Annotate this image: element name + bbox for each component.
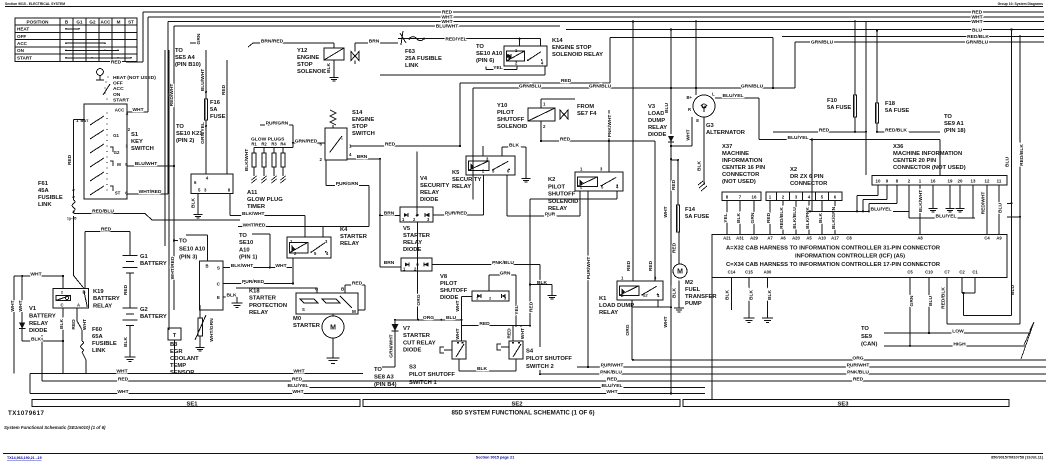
B3 thermistor	[198, 318, 203, 336]
svg-text:A5: A5	[806, 235, 812, 240]
svg-text:9: 9	[886, 178, 889, 183]
svg-text:A9: A9	[996, 235, 1002, 240]
svg-text:4: 4	[541, 61, 544, 66]
svg-text:5: 5	[314, 251, 317, 256]
wire bus GRN/BLU right	[795, 41, 1044, 43]
svg-text:ACC: ACC	[17, 41, 28, 46]
svg-text:10: 10	[876, 178, 881, 183]
svg-text:RED/BLK: RED/BLK	[885, 127, 907, 133]
svg-text:RED: RED	[292, 376, 303, 382]
table contacts	[65, 28, 67, 30]
svg-text:S14ENGINESTOPSWITCH: S14ENGINESTOPSWITCH	[352, 110, 375, 137]
V1 wires	[13, 276, 15, 373]
svg-text:WHT: WHT	[275, 263, 286, 269]
svg-text:ST: ST	[643, 293, 649, 298]
svg-text:F165AFUSE: F165AFUSE	[210, 100, 226, 120]
svg-text:BLK: BLK	[59, 319, 65, 330]
svg-text:BLK: BLK	[191, 198, 197, 209]
svg-text:System Functional Schematic (S: System Functional Schematic (SE1m010) (1…	[4, 425, 106, 430]
svg-text:BLK: BLK	[725, 290, 731, 301]
svg-text:R4: R4	[280, 142, 286, 147]
svg-text:ORG: ORG	[852, 356, 863, 362]
svg-text:BLK: BLK	[672, 288, 678, 299]
right verticals	[1011, 30, 1013, 316]
wire ORG BLU	[395, 319, 462, 321]
svg-text:SE3: SE3	[838, 401, 850, 407]
rotary symbol	[97, 69, 104, 76]
svg-text:M: M	[117, 19, 121, 24]
svg-text:Y10PILOTSHUTOFFSOLENOID: Y10PILOTSHUTOFFSOLENOID	[497, 103, 527, 130]
svg-text:RED: RED	[67, 154, 73, 165]
svg-text:PUR/WHT: PUR/WHT	[847, 363, 870, 369]
starter wires	[316, 288, 318, 293]
battery G1	[123, 255, 138, 257]
svg-text:RED: RED	[507, 328, 513, 339]
wire BRN/RED	[253, 42, 334, 44]
svg-text:BLU/WHT: BLU/WHT	[436, 24, 459, 30]
svg-text:ACC: ACC	[101, 19, 112, 24]
Y10 coil	[528, 108, 555, 121]
svg-text:WHT: WHT	[606, 389, 617, 395]
B3 sensor box	[168, 328, 181, 340]
svg-text:G2: G2	[89, 19, 96, 24]
svg-text:R: R	[688, 107, 691, 112]
svg-text:BLK: BLK	[326, 63, 332, 74]
svg-text:BLK: BLK	[749, 290, 755, 301]
wire vertical x712	[711, 278, 713, 400]
F63 symbol	[398, 38, 541, 40]
CAN HIGH wire	[884, 345, 1026, 347]
svg-text:R1: R1	[251, 142, 257, 147]
svg-text:BLU: BLU	[1010, 285, 1016, 296]
svg-text:E: E	[217, 295, 220, 300]
F60 symbol	[81, 341, 84, 352]
svg-text:RED: RED	[71, 319, 77, 330]
svg-text:ORG: ORG	[625, 324, 631, 335]
svg-text:Section 9015 page 21: Section 9015 page 21	[476, 456, 514, 460]
wire RED vertical mid	[226, 60, 228, 160]
svg-text:3: 3	[600, 167, 603, 172]
S3 wires RED	[462, 325, 531, 327]
svg-text:V7STARTERCUT RELAYDIODE: V7STARTERCUT RELAYDIODE	[403, 326, 436, 354]
wire bus RED bottom	[42, 380, 1046, 382]
rotary ticks	[107, 76, 108, 77]
svg-text:TOSE10 A10(PIN 6): TOSE10 A10(PIN 6)	[476, 44, 502, 64]
SE2 section bar	[363, 400, 680, 407]
svg-text:GRN/BLU: GRN/BLU	[519, 84, 542, 90]
K2 relay box	[575, 172, 623, 191]
X36 pin wires	[877, 185, 879, 196]
svg-text:PNK/BLU: PNK/BLU	[492, 260, 514, 266]
svg-text:WHT: WHT	[30, 272, 41, 278]
wire bus WHT left	[30, 372, 363, 374]
svg-text:A7: A7	[767, 235, 773, 240]
V5 diode box	[401, 258, 432, 271]
svg-text:6: 6	[834, 195, 837, 200]
svg-text:4: 4	[206, 176, 209, 181]
K2 wires	[507, 215, 580, 217]
V1 diode	[19, 322, 25, 328]
header rule	[5, 6, 1043, 8]
svg-text:PUR/RED: PUR/RED	[242, 279, 264, 285]
V5 wires	[380, 266, 401, 268]
svg-text:B: B	[65, 19, 69, 24]
K19 relay box	[53, 289, 89, 309]
alternator circle	[693, 95, 715, 117]
svg-text:RED: RED	[766, 212, 772, 223]
svg-text:A17: A17	[831, 235, 839, 240]
svg-text:S4PILOT SHUTOFFSWITCH 2: S4PILOT SHUTOFFSWITCH 2	[526, 349, 572, 370]
wire WHT from S1 ACC	[127, 111, 148, 113]
svg-text:TX14,963,190,21 –19: TX14,963,190,21 –19	[7, 456, 42, 460]
svg-text:BLK/BLU: BLK/BLU	[792, 207, 798, 229]
svg-text:RED: RED	[853, 376, 864, 382]
svg-text:WHT/RED: WHT/RED	[139, 189, 162, 195]
svg-text:PUR/WHT: PUR/WHT	[586, 257, 592, 280]
svg-text:RED/BLK: RED/BLK	[1019, 144, 1025, 166]
svg-text:RED: RED	[819, 127, 830, 133]
X2 connector box	[766, 192, 842, 201]
svg-text:GRN: GRN	[196, 33, 202, 44]
svg-text:START: START	[17, 55, 32, 60]
K19 wires	[62, 276, 64, 289]
svg-text:M0STARTER: M0STARTER	[293, 316, 321, 329]
svg-text:K14ENGINE STOPSOLENOID RELAY: K14ENGINE STOPSOLENOID RELAY	[552, 38, 603, 58]
svg-text:A6: A6	[780, 235, 786, 240]
svg-text:RED: RED	[560, 136, 571, 142]
svg-text:V5STARTERRELAYDIODE: V5STARTERRELAYDIODE	[403, 226, 431, 253]
svg-text:8: 8	[228, 188, 231, 193]
starter motor	[322, 316, 344, 338]
wire BAT left	[74, 119, 85, 121]
wire bus BLU/YEL bottom	[290, 387, 705, 389]
svg-text:A=X32 CAB HARNESS TO INFORMATI: A=X32 CAB HARNESS TO INFORMATION CONTROL…	[726, 246, 941, 252]
svg-text:C2: C2	[959, 270, 965, 275]
harness CAN wires	[909, 278, 911, 346]
svg-text:8: 8	[896, 178, 899, 183]
wire RED/BLU	[74, 213, 146, 215]
svg-text:4: 4	[616, 185, 619, 190]
svg-text:GRN/BLU: GRN/BLU	[811, 40, 834, 46]
svg-text:3: 3	[654, 276, 657, 281]
svg-text:ACC: ACC	[115, 108, 125, 113]
svg-text:3: 3	[126, 144, 129, 149]
left edge verticals	[29, 373, 31, 393]
svg-text:BRN: BRN	[369, 39, 380, 45]
svg-text:WHT: WHT	[116, 369, 127, 375]
svg-text:19: 19	[948, 178, 953, 183]
svg-text:R3: R3	[271, 142, 277, 147]
svg-text:C: C	[217, 282, 221, 287]
S4 switch	[509, 341, 523, 359]
svg-text:RED: RED	[626, 260, 632, 271]
starter solenoid box	[296, 293, 358, 314]
wire GRN below F16	[205, 120, 207, 145]
wire BLU/WHT from S1 M	[127, 165, 174, 167]
svg-text:BRN/RED: BRN/RED	[261, 39, 284, 45]
svg-text:YEL: YEL	[723, 213, 729, 223]
wire GRN/RED 2	[292, 125, 294, 143]
svg-text:BLU/YEL: BLU/YEL	[602, 383, 623, 389]
svg-text:RED: RED	[101, 227, 112, 233]
svg-text:C1: C1	[972, 270, 978, 275]
svg-text:4: 4	[808, 195, 811, 200]
svg-text:G2BATTERY: G2BATTERY	[140, 307, 167, 320]
svg-text:RED/BLK: RED/BLK	[779, 207, 785, 229]
svg-text:RED/BLK: RED/BLK	[967, 34, 989, 40]
svg-text:K2PILOTSHUTOFFSOLENOIDRELAY: K2PILOTSHUTOFFSOLENOIDRELAY	[548, 177, 578, 212]
svg-text:BLK: BLK	[767, 290, 773, 301]
battery G2	[123, 307, 138, 309]
CAN LOW wire	[884, 332, 1029, 334]
svg-text:4: 4	[349, 152, 352, 157]
svg-text:WHT: WHT	[82, 319, 88, 330]
svg-text:1: 1	[76, 118, 79, 123]
svg-text:BRN: BRN	[357, 154, 368, 160]
wire RED/WHT vertical	[164, 50, 166, 246]
svg-text:BLK: BLK	[509, 143, 520, 149]
svg-text:BLK/GRN: BLK/GRN	[831, 206, 837, 229]
svg-text:A10: A10	[818, 235, 826, 240]
S3 wires BLK	[459, 370, 516, 372]
svg-text:1: 1	[769, 195, 772, 200]
svg-text:2: 2	[782, 195, 785, 200]
footer rule	[3, 453, 1043, 455]
svg-text:20: 20	[958, 178, 963, 183]
wire bus PNK/BLU bottom	[540, 373, 1046, 375]
svg-text:C: C	[60, 302, 63, 307]
svg-text:BLU/YEL: BLU/YEL	[788, 135, 809, 141]
svg-text:1g--45: 1g--45	[67, 217, 77, 221]
svg-text:PUR/RED: PUR/RED	[445, 211, 467, 217]
svg-text:6: 6	[320, 142, 323, 147]
svg-text:GRN: GRN	[909, 295, 915, 306]
svg-text:WHT/RED: WHT/RED	[243, 223, 266, 229]
A11 timer box	[191, 174, 233, 194]
S3 switch 1	[452, 341, 466, 359]
wire bus WHT bottom	[30, 393, 705, 395]
svg-text:C14: C14	[728, 270, 736, 275]
svg-text:BLU: BLU	[972, 28, 983, 34]
svg-text:4: 4	[326, 251, 329, 256]
svg-text:16: 16	[752, 195, 757, 200]
key switch position table	[15, 18, 137, 62]
svg-text:OFF: OFF	[17, 34, 26, 39]
F61 symbol	[72, 200, 75, 211]
svg-text:RED: RED	[529, 301, 535, 312]
svg-text:F105A FUSE: F105A FUSE	[827, 98, 851, 111]
svg-text:K5SECURITYRELAY: K5SECURITYRELAY	[452, 170, 481, 190]
svg-text:C7: C7	[944, 270, 950, 275]
svg-text:85D SYSTEM FUNCTIONAL SCHEMATI: 85D SYSTEM FUNCTIONAL SCHEMATIC (1 OF 6)	[451, 410, 594, 417]
wire RED starter	[344, 285, 346, 293]
M2 motor	[673, 264, 687, 278]
svg-text:12: 12	[985, 178, 990, 183]
svg-text:HEAT: HEAT	[17, 27, 29, 32]
starter ground	[332, 338, 334, 354]
feed vertical x866	[865, 21, 867, 175]
svg-text:M2FUELTRANSFERPUMP: M2FUELTRANSFERPUMP	[685, 280, 717, 307]
svg-text:RED: RED	[479, 321, 490, 327]
svg-text:PUR/WHT: PUR/WHT	[601, 363, 624, 369]
M2 ground	[678, 281, 680, 306]
svg-text:TOSE5 A4(PIN B10): TOSE5 A4(PIN B10)	[175, 48, 201, 68]
svg-text:B: B	[82, 289, 85, 294]
svg-text:HEAT (NOT USED)OFFACCONSTART: HEAT (NOT USED)OFFACCONSTART	[113, 75, 156, 103]
wire bus PUR/WHT bottom	[577, 366, 1046, 368]
V3 diode	[670, 30, 672, 135]
wire bus RED top	[143, 11, 1044, 13]
svg-text:TOSE10 A10(PIN 3): TOSE10 A10(PIN 3)	[179, 239, 205, 261]
svg-text:1: 1	[543, 102, 546, 107]
svg-text:WHT: WHT	[663, 316, 669, 327]
svg-text:BRN: BRN	[384, 211, 395, 217]
wire vertical 2	[168, 50, 170, 330]
svg-text:1: 1	[290, 239, 293, 244]
svg-text:BLK: BLK	[123, 337, 129, 348]
svg-text:BLK/WHT: BLK/WHT	[918, 190, 924, 213]
svg-text:RED: RED	[672, 242, 678, 253]
wire PUR/GRN	[260, 124, 293, 126]
X2 pin wires	[769, 201, 771, 235]
svg-text:5: 5	[601, 185, 604, 190]
wire RED mid	[85, 230, 130, 232]
svg-text:C=X34 CAB HARNESS TO INFORMATI: C=X34 CAB HARNESS TO INFORMATION CONTROL…	[726, 262, 941, 268]
svg-text:L: L	[712, 92, 715, 97]
svg-text:M: M	[117, 162, 121, 167]
svg-text:WHT: WHT	[117, 389, 128, 395]
wire PUR/GRN 2	[325, 160, 327, 186]
wire bus WHT top	[148, 16, 1044, 18]
svg-text:RED: RED	[607, 376, 618, 382]
svg-text:V4SECURITYRELAYDIODE: V4SECURITYRELAYDIODE	[420, 176, 449, 203]
svg-text:F185A FUSE: F185A FUSE	[885, 101, 909, 114]
svg-text:2: 2	[482, 169, 485, 174]
SE3 section bar	[683, 400, 1009, 407]
svg-text:16: 16	[931, 178, 936, 183]
svg-text:BLU: BLU	[928, 296, 934, 307]
K14 diode	[507, 54, 511, 58]
K14 pin wires	[518, 39, 520, 46]
svg-text:1: 1	[580, 167, 583, 172]
X36 connector box	[872, 175, 1007, 185]
wire BRN	[355, 42, 398, 44]
svg-text:F6145AFUSIBLELINK: F6145AFUSIBLELINK	[38, 181, 63, 208]
svg-text:FROMSE7 F4: FROMSE7 F4	[577, 104, 597, 117]
svg-text:2: 2	[489, 296, 492, 301]
svg-text:K19BATTERYRELAY: K19BATTERYRELAY	[93, 289, 120, 309]
svg-text:5: 5	[198, 188, 201, 193]
svg-text:BLK: BLK	[736, 213, 742, 224]
twisted pair symbol	[1021, 322, 1034, 359]
svg-text:S1KEYSWITCH: S1KEYSWITCH	[131, 132, 154, 152]
svg-text:A21: A21	[723, 235, 731, 240]
svg-text:1: 1	[402, 217, 405, 222]
svg-text:F6065AFUSIBLELINK: F6065AFUSIBLELINK	[92, 327, 117, 354]
wire RED f10	[773, 131, 866, 133]
svg-text:BLU/YEL: BLU/YEL	[936, 214, 957, 220]
svg-text:B+: B+	[687, 95, 693, 100]
svg-text:S: S	[302, 307, 305, 312]
svg-text:R2: R2	[261, 142, 267, 147]
svg-text:POSITION: POSITION	[27, 19, 50, 24]
Y10 valve	[560, 110, 568, 119]
svg-text:BLK/WHT: BLK/WHT	[242, 211, 265, 217]
Y12 ground	[333, 60, 335, 75]
svg-text:1: 1	[621, 276, 624, 281]
svg-text:HIGH: HIGH	[953, 342, 966, 348]
svg-text:Group 10: System Diagrams: Group 10: System Diagrams	[998, 2, 1044, 6]
K5 BLK ground loop	[501, 147, 503, 156]
svg-text:TOSE10 K21(PIN 2): TOSE10 K21(PIN 2)	[176, 124, 203, 144]
svg-text:ORG: ORG	[416, 294, 422, 305]
svg-text:M: M	[677, 269, 683, 276]
svg-text:RED: RED	[561, 78, 572, 84]
wire RED/BLK f18	[877, 131, 940, 133]
svg-text:5: 5	[821, 195, 824, 200]
svg-text:BLK: BLK	[31, 337, 42, 343]
svg-text:SE1: SE1	[187, 401, 199, 407]
harness connector box	[712, 234, 1007, 277]
wire to K14	[609, 38, 611, 83]
V4 diode box	[400, 207, 433, 222]
svg-text:S3PILOT SHUTOFFSWITCH 1: S3PILOT SHUTOFFSWITCH 1	[409, 365, 455, 386]
svg-text:A: A	[77, 302, 80, 307]
svg-text:3: 3	[795, 195, 798, 200]
svg-text:3: 3	[504, 296, 507, 301]
svg-text:A20: A20	[792, 235, 800, 240]
svg-text:Section 9015 - ELECTRICAL SYST: Section 9015 - ELECTRICAL SYSTEM	[5, 2, 65, 6]
svg-text:WHT: WHT	[455, 328, 461, 339]
svg-text:A11GLOW PLUGTIMER: A11GLOW PLUGTIMER	[247, 190, 283, 210]
svg-text:WHT: WHT	[18, 300, 24, 311]
svg-text:M: M	[352, 309, 356, 314]
svg-text:G2: G2	[114, 150, 120, 155]
svg-text:G3ALTERNATOR: G3ALTERNATOR	[706, 123, 746, 136]
wire YEL	[485, 67, 487, 70]
svg-text:WHT: WHT	[292, 389, 303, 395]
svg-text:RED/WHT: RED/WHT	[169, 84, 175, 107]
svg-text:A31: A31	[736, 235, 744, 240]
svg-text:YEL: YEL	[493, 65, 503, 71]
svg-text:INFORMATION CONTROLLER (ICF): INFORMATION CONTROLLER (ICF) (A5)	[795, 254, 905, 260]
svg-text:BLU: BLU	[664, 103, 670, 114]
svg-text:X37MACHINEINFORMATIONCENTER 16: X37MACHINEINFORMATIONCENTER 16 PINCONNEC…	[722, 144, 765, 185]
svg-text:GRN/WHT: GRN/WHT	[388, 334, 394, 357]
svg-text:T: T	[173, 333, 177, 339]
K4 relay box	[287, 237, 331, 258]
svg-text:PUR/GRN: PUR/GRN	[266, 121, 289, 127]
svg-text:2: 2	[543, 124, 546, 129]
svg-text:RED/YEL: RED/YEL	[445, 36, 466, 42]
F14 fuse	[677, 160, 679, 205]
svg-text:2: 2	[61, 289, 64, 294]
svg-text:BLU/WHT: BLU/WHT	[200, 69, 206, 92]
svg-text:F145A FUSE: F145A FUSE	[685, 207, 709, 220]
svg-text:8: 8	[726, 195, 729, 200]
svg-text:BRN: BRN	[384, 260, 395, 266]
wire bus ORG bottom	[633, 359, 1046, 361]
svg-text:BLU: BLU	[1005, 157, 1011, 168]
svg-text:2: 2	[580, 185, 583, 190]
svg-text:TOSE9 A1(PIN 18): TOSE9 A1(PIN 18)	[944, 114, 966, 134]
svg-text:BLK: BLK	[477, 366, 488, 372]
Y12 coil	[324, 48, 344, 60]
svg-text:RED: RED	[118, 376, 129, 382]
svg-text:BLK/WHT: BLK/WHT	[244, 149, 250, 172]
wire BLU/YEL long	[759, 139, 940, 141]
wire WHT/RED from S1 ST	[127, 193, 168, 195]
